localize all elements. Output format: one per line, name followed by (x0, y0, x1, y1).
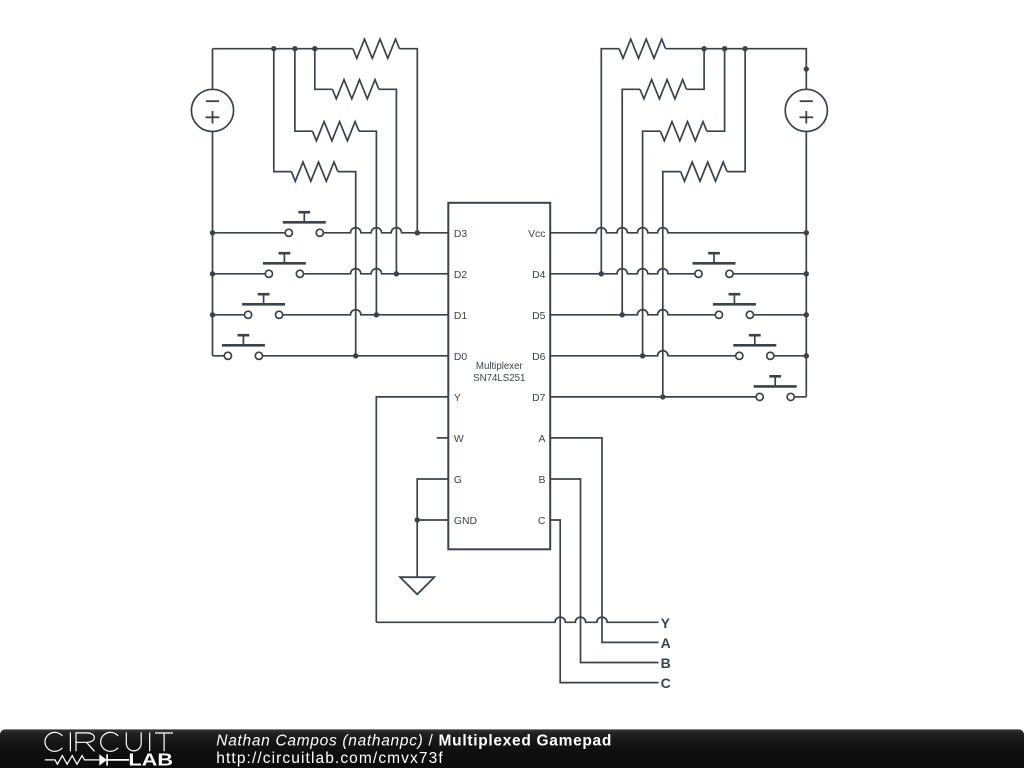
wire left supply rail (212, 132, 214, 356)
node rail-R3 junction (292, 46, 297, 51)
pushbutton SWD4 (693, 253, 736, 277)
svg-text:D4: D4 (532, 270, 546, 281)
node D6 column junction (640, 353, 645, 358)
svg-text:D0: D0 (454, 352, 468, 363)
svg-text:D2: D2 (454, 270, 468, 281)
wire right supply rail (805, 132, 807, 397)
svg-text:Vcc: Vcc (528, 229, 545, 240)
node rail-R2 junction (312, 46, 317, 51)
pushbutton SWD0 (222, 335, 265, 359)
svg-text:A: A (661, 635, 671, 651)
wire rail down to R2 (315, 49, 333, 90)
voltage source V1 (191, 89, 233, 131)
wire SWD6 to rail (770, 355, 806, 357)
svg-text:D5: D5 (532, 311, 546, 322)
node rail-R4 junction (271, 46, 276, 51)
node right rail-D4 (804, 271, 809, 276)
wire Y output horizontal (376, 617, 658, 622)
node right rail-D6 (804, 353, 809, 358)
wire SWD0 to pin D0 (259, 355, 448, 357)
node D7 column junction (660, 394, 665, 399)
svg-text:G: G (454, 475, 462, 486)
wire rail down to R3 (295, 49, 313, 132)
wire SWD3 to pin D3 (320, 228, 449, 233)
node left rail-D3 (210, 230, 215, 235)
wire SWD5 to rail (750, 314, 806, 316)
pushbutton SWD7 (754, 376, 797, 400)
wire R5 to D4 column (601, 49, 619, 274)
node D1 column junction (374, 312, 379, 317)
wire pin D7 to SWD7 (550, 396, 760, 398)
svg-text:GND: GND (454, 516, 477, 527)
wire R8 to D7 column (663, 172, 681, 397)
svg-text:D1: D1 (454, 311, 468, 322)
node left rail-D2 (210, 271, 215, 276)
wire SWD7 to rail (791, 396, 807, 398)
logo resistor-diode glyph (45, 756, 100, 765)
svg-text:Nathan Campos (nathanpc) / Mul: Nathan Campos (nathanpc) / Multiplexed G… (216, 733, 612, 750)
node V2 top lead junction (804, 66, 809, 71)
wire rail down to R6 (687, 49, 705, 90)
wire B output (550, 479, 658, 663)
wire pin D6 to SWD6 (550, 351, 739, 356)
wire R1 to D3 column (399, 49, 417, 233)
node D4 column junction (599, 271, 604, 276)
wire A output (550, 438, 658, 643)
svg-text:D3: D3 (454, 229, 468, 240)
svg-text:A: A (538, 434, 545, 445)
wire top-right rail (666, 49, 807, 90)
wire Y output (376, 397, 448, 622)
wire Vcc to rail (550, 228, 806, 233)
node left rail-D1 (210, 312, 215, 317)
resistor R6 (640, 80, 687, 99)
svg-text:W: W (454, 434, 464, 445)
wire rail down to R8 (727, 49, 745, 172)
resistor R5 (619, 39, 666, 58)
svg-text:C: C (661, 675, 671, 691)
svg-text:http://circuitlab.com/cmvx73f: http://circuitlab.com/cmvx73f (216, 750, 443, 767)
wire R6 to D5 column (622, 89, 640, 314)
logo LAB (130, 753, 172, 765)
svg-text:B: B (538, 475, 545, 486)
wire R4 to D0 column (338, 172, 356, 356)
svg-text:Y: Y (454, 393, 461, 404)
node right rail-D5 (804, 312, 809, 317)
node D5 column junction (620, 312, 625, 317)
wire to ground symbol (416, 520, 418, 577)
wire rail to SWD1 (213, 314, 249, 316)
wire V1 top lead (212, 49, 214, 90)
resistor R4 (291, 162, 338, 181)
resistor R2 (332, 80, 379, 99)
svg-text:D6: D6 (532, 352, 546, 363)
pushbutton SWD1 (242, 294, 285, 318)
resistor R3 (313, 122, 360, 141)
ground (400, 577, 434, 594)
wire rail to SWD2 (213, 273, 269, 275)
logo CIRCUIT (45, 732, 173, 751)
wire R7 to D6 column (643, 131, 661, 356)
node GND junction (415, 517, 420, 522)
resistor R7 (660, 122, 707, 141)
pushbutton SWD2 (263, 253, 306, 277)
pushbutton SWD3 (283, 212, 326, 236)
svg-text:D7: D7 (532, 393, 546, 404)
voltage source V2 (785, 89, 827, 131)
svg-text:SN74LS251: SN74LS251 (473, 373, 525, 384)
wire W stub (437, 437, 449, 439)
wire R3 to D1 column (359, 131, 376, 315)
wire G to GND net (417, 479, 448, 520)
svg-text:Y: Y (661, 615, 671, 631)
pushbutton SWD5 (713, 294, 756, 318)
node D3 column junction (415, 230, 420, 235)
svg-text:C: C (538, 516, 546, 527)
wire rail to SWD3 (213, 232, 289, 234)
IC U1 multiplexer SN74LS251 body (448, 203, 550, 550)
resistor R8 (681, 162, 728, 181)
node rail-R6 junction (701, 46, 706, 51)
node rail-R7 junction (722, 46, 727, 51)
wire rail to SWD0 (213, 355, 228, 357)
wire GND pin (417, 519, 448, 521)
footer bar (0, 729, 1024, 768)
wire top-left rail (213, 48, 353, 50)
node D2 column junction (394, 271, 399, 276)
wire SWD1 to pin D1 (279, 310, 448, 315)
resistor R1 (353, 39, 400, 58)
node rail-R8 junction (742, 46, 747, 51)
wire pin D5 to SWD5 (550, 310, 719, 315)
node right rail-Vcc (804, 230, 809, 235)
wire pin D4 to SWD4 (550, 269, 698, 274)
svg-text:Multiplexer: Multiplexer (476, 361, 524, 372)
wire C output (550, 520, 658, 683)
svg-text:B: B (661, 655, 671, 671)
wire rail down to R4 (274, 49, 292, 172)
wire SWD2 to pin D2 (300, 269, 448, 274)
wire rail down to R7 (707, 49, 725, 132)
pushbutton SWD6 (733, 335, 776, 359)
wire R2 to D2 column (379, 89, 397, 273)
node D0 column junction (353, 353, 358, 358)
wire SWD4 to rail (730, 273, 807, 275)
